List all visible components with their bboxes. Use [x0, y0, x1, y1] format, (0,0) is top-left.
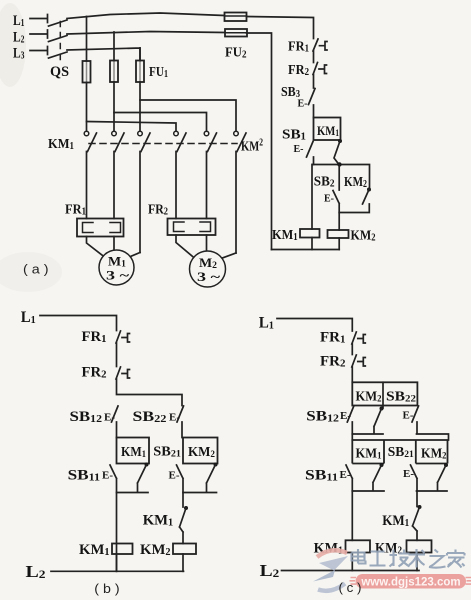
svg-text:E-: E-	[169, 470, 180, 482]
svg-text:( b ): ( b )	[94, 581, 119, 596]
svg-text:E-: E-	[294, 144, 304, 155]
svg-text:( a ): ( a )	[23, 262, 49, 277]
svg-text:E-: E-	[324, 194, 334, 205]
svg-text:www.dgjs123.com: www.dgjs123.com	[360, 577, 460, 589]
svg-text:E-: E-	[298, 99, 308, 110]
svg-text:E-: E-	[102, 470, 113, 482]
svg-text:( c ): ( c )	[339, 580, 362, 595]
svg-text:QS: QS	[50, 64, 69, 80]
svg-text:3 ~: 3 ~	[106, 268, 129, 283]
svg-text:3 ~: 3 ~	[197, 269, 220, 284]
